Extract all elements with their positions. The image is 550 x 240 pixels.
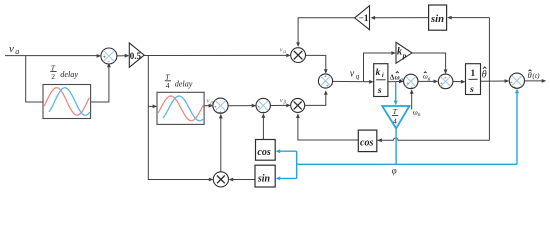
svg-text:sin: sin <box>430 14 444 25</box>
svg-text:4: 4 <box>393 117 397 126</box>
svg-text:delay: delay <box>175 79 193 88</box>
svg-text:v: v <box>350 69 355 80</box>
svg-text:sin: sin <box>257 174 271 185</box>
svg-text:a: a <box>15 47 19 56</box>
svg-text:−1: −1 <box>359 14 369 24</box>
svg-text:2: 2 <box>51 72 55 81</box>
svg-text:α: α <box>283 49 286 55</box>
svg-text:+: + <box>326 83 329 89</box>
svg-text:v: v <box>280 46 283 53</box>
svg-text:θ: θ <box>528 71 532 80</box>
svg-text:delay: delay <box>60 70 78 79</box>
svg-text:θ: θ <box>482 69 487 80</box>
svg-text:ω: ω <box>395 74 400 82</box>
svg-text:4: 4 <box>166 81 170 90</box>
svg-text:+: + <box>103 55 106 60</box>
svg-text:p: p <box>402 52 407 60</box>
svg-text:+: + <box>410 85 413 91</box>
svg-text:k: k <box>397 47 402 58</box>
svg-text:s: s <box>469 84 474 95</box>
svg-text:×: × <box>257 105 260 111</box>
svg-text:s: s <box>377 86 382 96</box>
svg-text:g: g <box>399 77 403 83</box>
svg-text:÷: ÷ <box>262 110 265 116</box>
svg-text:cos: cos <box>257 147 270 158</box>
svg-text:k: k <box>376 68 381 78</box>
svg-text:+: + <box>406 81 409 87</box>
svg-text:φ: φ <box>392 165 397 175</box>
svg-text:β: β <box>209 100 213 106</box>
svg-text:+: + <box>324 74 327 80</box>
svg-text:v: v <box>9 43 14 55</box>
svg-text:+: + <box>513 85 516 91</box>
svg-text:q: q <box>356 73 360 81</box>
svg-text:T: T <box>393 107 398 116</box>
svg-text:+: + <box>214 105 217 111</box>
svg-text:cos: cos <box>360 138 373 149</box>
svg-text:1: 1 <box>470 68 475 79</box>
svg-text:+: + <box>444 76 447 82</box>
svg-text:v: v <box>207 98 210 105</box>
svg-text:v: v <box>280 97 283 104</box>
svg-text:i: i <box>382 72 384 79</box>
svg-text:0.5: 0.5 <box>130 51 142 61</box>
svg-text:−: − <box>107 60 110 65</box>
svg-text:(t): (t) <box>532 71 540 80</box>
svg-text:+: + <box>219 110 222 116</box>
svg-text:n: n <box>418 112 421 118</box>
svg-text:+: + <box>440 81 443 87</box>
svg-text:β: β <box>283 100 287 106</box>
svg-text:g: g <box>428 76 431 82</box>
